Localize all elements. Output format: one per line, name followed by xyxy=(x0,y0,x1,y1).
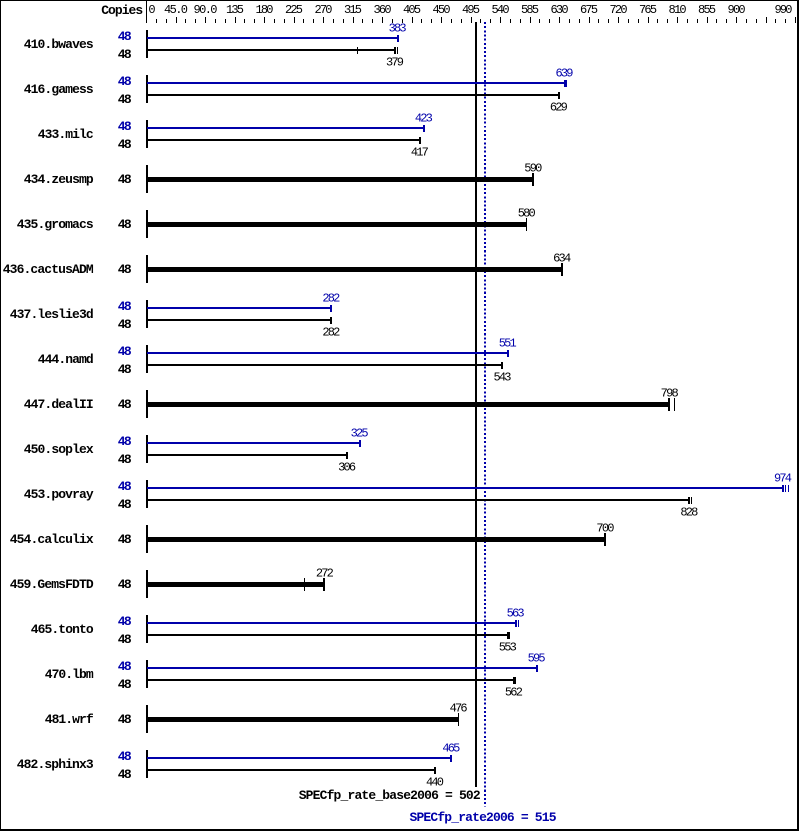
svg-text:465: 465 xyxy=(442,741,460,755)
416.gamess base bar (629) xyxy=(147,94,559,96)
svg-text:990: 990 xyxy=(775,3,793,17)
450.soplex base bar (306) xyxy=(147,454,347,456)
svg-text:595: 595 xyxy=(528,651,546,665)
axis minor ticks xyxy=(156,19,157,24)
459.GemsFDTD start tick xyxy=(146,570,148,598)
435.gromacs base end tick xyxy=(526,218,527,231)
447.dealII base end tick xyxy=(668,398,670,411)
459.GemsFDTD base bar (272) xyxy=(147,582,325,587)
svg-text:720: 720 xyxy=(610,3,628,17)
axis separator line xyxy=(146,0,147,23)
444.namd start tick xyxy=(146,345,148,373)
433.milc peak bar (423) xyxy=(147,127,424,129)
svg-text:Copies: Copies xyxy=(101,3,143,18)
470.lbm base end tick xyxy=(513,677,515,685)
433.milc base bar (417) xyxy=(147,139,420,141)
svg-text:306: 306 xyxy=(338,460,356,474)
svg-text:700: 700 xyxy=(596,521,614,535)
416.gamess base end tick xyxy=(558,92,560,100)
svg-text:417: 417 xyxy=(411,145,429,159)
svg-text:45.0: 45.0 xyxy=(164,3,188,17)
svg-text:454.calculix: 454.calculix xyxy=(10,532,94,547)
svg-text:416.gamess: 416.gamess xyxy=(24,82,94,97)
410.bwaves start tick xyxy=(146,30,148,58)
svg-text:629: 629 xyxy=(550,100,568,114)
437.leslie3d peak bar (282) xyxy=(147,307,331,309)
svg-text:551: 551 xyxy=(499,336,517,350)
416.gamess start tick xyxy=(146,75,148,103)
470.lbm peak end tick xyxy=(536,665,538,673)
svg-text:48: 48 xyxy=(118,74,132,89)
svg-text:48: 48 xyxy=(118,29,132,44)
437.leslie3d base bar (282) xyxy=(147,319,331,321)
svg-text:405: 405 xyxy=(403,3,421,17)
453.povray peak run marker xyxy=(785,485,786,493)
465.tonto base bar (553) xyxy=(147,634,508,636)
410.bwaves base run marker xyxy=(357,47,358,55)
svg-text:135: 135 xyxy=(226,3,244,17)
435.gromacs start tick xyxy=(146,210,148,238)
svg-text:48: 48 xyxy=(118,362,132,377)
svg-text:828: 828 xyxy=(680,505,698,519)
svg-text:437.leslie3d: 437.leslie3d xyxy=(10,307,94,322)
481.wrf base bar (476) xyxy=(147,717,459,722)
svg-text:482.sphinx3: 482.sphinx3 xyxy=(17,757,94,772)
svg-text:325: 325 xyxy=(351,426,369,440)
svg-text:272: 272 xyxy=(316,566,334,580)
svg-text:810: 810 xyxy=(669,3,687,17)
410.bwaves peak end tick xyxy=(397,35,399,43)
465.tonto base run marker xyxy=(509,632,510,640)
453.povray peak run marker xyxy=(788,485,789,493)
svg-text:410.bwaves: 410.bwaves xyxy=(24,37,94,52)
410.bwaves peak bar (383) xyxy=(147,37,398,39)
470.lbm start tick xyxy=(146,660,148,688)
453.povray start tick xyxy=(146,480,148,508)
svg-text:580: 580 xyxy=(518,206,536,220)
svg-text:543: 543 xyxy=(493,370,511,384)
416.gamess peak end tick xyxy=(564,80,566,88)
svg-text:48: 48 xyxy=(118,119,132,134)
470.lbm peak bar (595) xyxy=(147,667,537,669)
svg-text:180: 180 xyxy=(256,3,274,17)
svg-text:590: 590 xyxy=(524,161,542,175)
470.lbm base bar (562) xyxy=(147,679,514,681)
svg-text:562: 562 xyxy=(505,685,523,699)
450.soplex start tick xyxy=(146,435,148,463)
437.leslie3d start tick xyxy=(146,300,148,328)
447.dealII base run marker xyxy=(674,398,675,411)
svg-text:495: 495 xyxy=(462,3,480,17)
axis major ticks xyxy=(146,17,147,23)
svg-text:48: 48 xyxy=(118,172,132,187)
svg-text:465.tonto: 465.tonto xyxy=(31,622,94,637)
465.tonto start tick xyxy=(146,615,148,643)
svg-text:481.wrf: 481.wrf xyxy=(45,712,94,727)
453.povray base run marker xyxy=(691,497,692,505)
svg-text:270: 270 xyxy=(315,3,333,17)
470.lbm base run marker xyxy=(515,677,516,685)
434.zeusmp start tick xyxy=(146,165,148,193)
svg-text:48: 48 xyxy=(118,767,132,782)
svg-text:423: 423 xyxy=(415,111,433,125)
svg-text:974: 974 xyxy=(774,471,792,485)
svg-text:48: 48 xyxy=(118,632,132,647)
454.calculix base bar (700) xyxy=(147,537,605,542)
435.gromacs base bar (580) xyxy=(147,222,527,227)
svg-text:48: 48 xyxy=(118,452,132,467)
453.povray peak end tick xyxy=(782,485,784,493)
svg-text:459.GemsFDTD: 459.GemsFDTD xyxy=(10,577,94,592)
434.zeusmp base bar (590) xyxy=(147,177,533,182)
svg-text:639: 639 xyxy=(556,66,574,80)
svg-text:379: 379 xyxy=(386,55,404,69)
svg-text:585: 585 xyxy=(521,3,539,17)
482.sphinx3 peak end tick xyxy=(450,755,452,763)
svg-text:450: 450 xyxy=(433,3,451,17)
454.calculix base end tick xyxy=(604,533,605,546)
svg-text:450.soplex: 450.soplex xyxy=(24,442,94,457)
433.milc base end tick xyxy=(419,137,421,145)
svg-text:48: 48 xyxy=(118,479,132,494)
svg-text:48: 48 xyxy=(118,262,132,277)
svg-text:48: 48 xyxy=(118,677,132,692)
444.namd peak bar (551) xyxy=(147,352,508,354)
447.dealII base bar (798) xyxy=(147,402,670,407)
svg-text:48: 48 xyxy=(118,497,132,512)
410.bwaves base bar (379) xyxy=(147,49,395,51)
svg-text:630: 630 xyxy=(551,3,569,17)
482.sphinx3 peak bar (465) xyxy=(147,757,451,759)
svg-text:48: 48 xyxy=(118,317,132,332)
svg-text:476: 476 xyxy=(450,701,468,715)
svg-text:0: 0 xyxy=(148,3,155,17)
410.bwaves base end tick xyxy=(394,47,396,55)
437.leslie3d peak end tick xyxy=(330,305,332,313)
410.bwaves base run marker xyxy=(397,47,398,55)
svg-text:48: 48 xyxy=(118,137,132,152)
444.namd base bar (543) xyxy=(147,364,502,366)
437.leslie3d base end tick xyxy=(330,317,332,325)
svg-text:634: 634 xyxy=(553,251,571,265)
svg-text:SPECfp_rate2006 = 515: SPECfp_rate2006 = 515 xyxy=(410,810,557,825)
433.milc start tick xyxy=(146,120,148,148)
481.wrf base end tick xyxy=(458,713,459,726)
465.tonto base end tick xyxy=(507,632,509,640)
svg-text:436.cactusADM: 436.cactusADM xyxy=(3,262,94,277)
svg-text:434.zeusmp: 434.zeusmp xyxy=(24,172,94,187)
svg-text:900: 900 xyxy=(728,3,746,17)
svg-text:798: 798 xyxy=(661,386,679,400)
svg-text:48: 48 xyxy=(118,397,132,412)
svg-text:315: 315 xyxy=(344,3,362,17)
453.povray peak bar (974) xyxy=(147,487,783,489)
svg-text:282: 282 xyxy=(322,291,340,305)
465.tonto peak bar (563) xyxy=(147,622,516,624)
svg-text:765: 765 xyxy=(639,3,657,17)
svg-text:433.milc: 433.milc xyxy=(38,127,94,142)
svg-text:540: 540 xyxy=(492,3,510,17)
482.sphinx3 base end tick xyxy=(434,767,436,775)
svg-text:48: 48 xyxy=(118,434,132,449)
436.cactusADM base end tick xyxy=(561,263,563,276)
svg-text:855: 855 xyxy=(698,3,716,17)
svg-text:282: 282 xyxy=(322,325,340,339)
450.soplex peak bar (325) xyxy=(147,442,360,444)
459.GemsFDTD base end tick xyxy=(323,578,325,591)
436.cactusADM start tick xyxy=(146,255,148,283)
svg-text:48: 48 xyxy=(118,47,132,62)
482.sphinx3 start tick xyxy=(146,750,148,778)
416.gamess peak bar (639) xyxy=(147,82,565,84)
svg-text:48: 48 xyxy=(118,92,132,107)
svg-text:675: 675 xyxy=(580,3,598,17)
svg-text:SPECfp_rate_base2006 = 502: SPECfp_rate_base2006 = 502 xyxy=(299,788,481,803)
svg-text:453.povray: 453.povray xyxy=(24,487,94,502)
SPECfp_rate2006 dotted reference line (515) xyxy=(484,22,486,807)
svg-text:48: 48 xyxy=(118,344,132,359)
482.sphinx3 base bar (440) xyxy=(147,769,435,771)
svg-text:48: 48 xyxy=(118,749,132,764)
450.soplex peak end tick xyxy=(359,440,361,448)
svg-text:447.dealII: 447.dealII xyxy=(24,397,94,412)
svg-text:553: 553 xyxy=(499,640,517,654)
453.povray base end tick xyxy=(688,497,690,505)
481.wrf start tick xyxy=(146,705,148,733)
444.namd peak end tick xyxy=(507,350,509,358)
svg-text:48: 48 xyxy=(118,577,132,592)
svg-text:383: 383 xyxy=(389,21,407,35)
465.tonto peak run marker xyxy=(518,620,519,628)
454.calculix start tick xyxy=(146,525,148,553)
436.cactusADM base bar (634) xyxy=(147,267,562,272)
svg-text:48: 48 xyxy=(118,299,132,314)
svg-text:48: 48 xyxy=(118,712,132,727)
svg-text:48: 48 xyxy=(118,659,132,674)
444.namd base end tick xyxy=(501,362,503,370)
svg-text:48: 48 xyxy=(118,532,132,547)
svg-text:470.lbm: 470.lbm xyxy=(45,667,94,682)
svg-text:48: 48 xyxy=(118,217,132,232)
SPECfp_rate_base2006 reference line (502) xyxy=(475,22,477,787)
450.soplex base end tick xyxy=(346,452,348,460)
svg-text:48: 48 xyxy=(118,614,132,629)
svg-text:360: 360 xyxy=(374,3,392,17)
svg-text:444.namd: 444.namd xyxy=(38,352,94,367)
svg-text:90.0: 90.0 xyxy=(194,3,218,17)
svg-text:225: 225 xyxy=(285,3,303,17)
svg-text:563: 563 xyxy=(507,606,525,620)
416.gamess peak run marker xyxy=(566,80,567,88)
434.zeusmp base end tick xyxy=(532,173,534,186)
433.milc peak end tick xyxy=(423,125,425,133)
459.GemsFDTD base run marker xyxy=(304,578,305,591)
svg-text:435.gromacs: 435.gromacs xyxy=(17,217,94,232)
453.povray base bar (828) xyxy=(147,499,689,501)
447.dealII start tick xyxy=(146,390,148,418)
465.tonto peak end tick xyxy=(515,620,517,628)
